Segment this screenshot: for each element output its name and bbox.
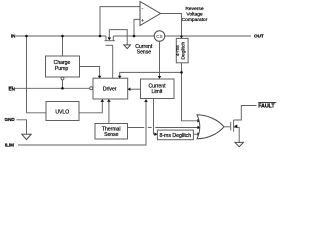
wire comparator output to 4-ms deglitch bbox=[161, 14, 182, 38]
svg-text:EN: EN bbox=[9, 87, 16, 92]
node junction dot on IN rail (charge pump branch) bbox=[61, 35, 64, 38]
ground symbol fault FET source bbox=[235, 142, 243, 146]
wire CS to current limit bbox=[159, 41, 161, 77]
transistor Q2 fault output FET bbox=[231, 106, 257, 143]
svg-text:Reverse: Reverse bbox=[185, 6, 203, 12]
wire current limit to driver bbox=[129, 88, 141, 90]
wire IN to UVLO bbox=[27, 36, 47, 113]
svg-text:+: + bbox=[141, 19, 144, 24]
svg-text:CS: CS bbox=[156, 34, 162, 39]
node driver enable bubble bbox=[90, 87, 93, 90]
node junction dot on OUT rail (comparator branch) bbox=[133, 35, 136, 38]
node Current Sense label bbox=[135, 44, 153, 56]
wire current limit output to 8-ms deglitch bbox=[154, 99, 157, 135]
svg-text:Voltage: Voltage bbox=[186, 12, 203, 18]
svg-text:Comparator: Comparator bbox=[182, 17, 208, 23]
node charge pump enable bubble bbox=[61, 77, 64, 80]
node junction dot on IN rail (UVLO branch) bbox=[25, 35, 28, 38]
current limit U5 bbox=[141, 79, 175, 99]
resistor U8 8-ms Deglitch block bbox=[157, 130, 193, 140]
svg-text:Driver: Driver bbox=[103, 86, 117, 92]
svg-text:Deglitch: Deglitch bbox=[181, 42, 187, 60]
node Reverse Voltage Comparator label bbox=[182, 6, 208, 23]
driver U4 bbox=[93, 78, 128, 99]
node junction dot deglitch output bbox=[180, 71, 183, 74]
wire GND lead bbox=[17, 120, 27, 134]
wire 8-ms deglitch output to OR gate bbox=[194, 133, 200, 135]
svg-text:FAULT: FAULT bbox=[258, 104, 275, 110]
wire gate lead to driver bbox=[112, 45, 114, 78]
thermal sense U7 bbox=[95, 124, 128, 140]
wire 4-ms deglitch output to driver and OR gate bbox=[182, 63, 200, 121]
UVLO U6 bbox=[46, 102, 79, 121]
svg-text:IN: IN bbox=[11, 33, 16, 38]
svg-text:GND: GND bbox=[5, 117, 16, 122]
svg-text:4-ms: 4-ms bbox=[175, 45, 181, 56]
node junction dot on EN line bbox=[61, 87, 64, 90]
ground body substrate triangle bbox=[124, 45, 131, 49]
wire thermal sense to driver bbox=[108, 100, 110, 124]
wire IN to charge pump bbox=[62, 36, 64, 56]
wire OUT to comparator plus input bbox=[134, 19, 140, 36]
wire OUT rail bbox=[113, 35, 154, 37]
capacitor C0 current sense circle CS bbox=[154, 31, 165, 42]
svg-text:OUT: OUT bbox=[254, 34, 264, 39]
wire IN rail bbox=[16, 35, 106, 37]
wire EN line bbox=[15, 87, 90, 89]
wire UVLO output to driver bbox=[79, 100, 102, 113]
svg-text:ILIM: ILIM bbox=[5, 142, 14, 147]
wire IN to comparator minus input bbox=[100, 7, 140, 36]
svg-text:Sense: Sense bbox=[137, 49, 152, 55]
resistor U2 4-ms Deglitch block bbox=[175, 38, 188, 62]
node EN pin label bbox=[8, 87, 15, 92]
wire OR gate output to fault FET gate bbox=[224, 126, 230, 128]
charge pump U3 bbox=[46, 56, 80, 77]
svg-text:8-ms Deglitch: 8-ms Deglitch bbox=[159, 133, 191, 139]
svg-text:Limit: Limit bbox=[152, 89, 163, 95]
wire charge pump output to driver bbox=[80, 67, 100, 78]
node FAULT pin label bbox=[258, 103, 276, 110]
or-gate U9 fault logic bbox=[197, 115, 224, 139]
node junction dot on IN rail (comparator branch) bbox=[99, 35, 102, 38]
ground symbol GND bbox=[22, 134, 31, 139]
svg-text:Sense: Sense bbox=[104, 132, 119, 138]
transistor Q1 pass FET bbox=[105, 30, 128, 46]
svg-text:Pump: Pump bbox=[55, 66, 68, 72]
wire ILIM line to current limit bbox=[18, 100, 146, 145]
wire thermal sense to OR gate (with crossover gaps) bbox=[128, 127, 145, 129]
svg-text:UVLO: UVLO bbox=[55, 110, 69, 116]
wire charge pump bubble to EN line bbox=[62, 80, 64, 88]
op-amp U1 reverse voltage comparator bbox=[140, 2, 161, 26]
